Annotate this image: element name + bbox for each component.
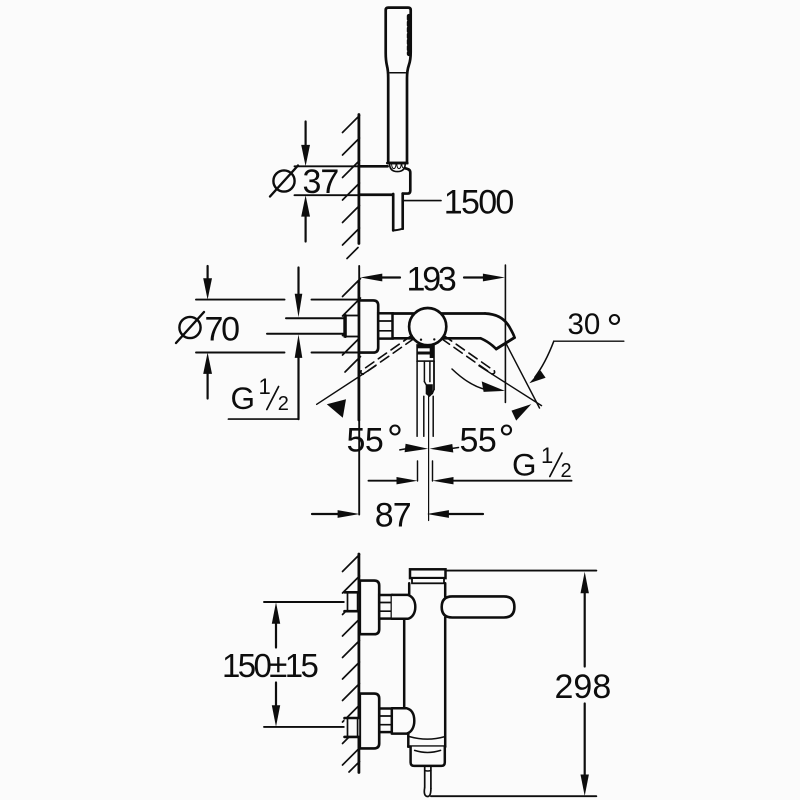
dim 150±15 arrows — [272, 602, 280, 624]
wall hatching (bottom view) — [343, 555, 360, 773]
dim Ø37 bottom arrow — [305, 214, 307, 242]
body lower section — [407, 734, 410, 747]
dashed lever position right (55°) — [441, 335, 494, 374]
svg-text:1: 1 — [259, 374, 271, 399]
lever collar — [417, 345, 434, 361]
dim Ø37 top arrow — [305, 122, 307, 148]
body top section — [408, 583, 411, 595]
centre line — [428, 396, 430, 520]
wall hatching (top view) — [343, 116, 360, 259]
G1/2 outlet arrows — [417, 461, 419, 481]
hand shower seam line — [390, 72, 406, 74]
svg-text:55: 55 — [460, 422, 497, 460]
svg-text:87: 87 — [375, 497, 411, 535]
dim 87 — [312, 513, 340, 515]
shower hose — [393, 194, 403, 231]
shower head face line — [387, 162, 407, 165]
lever shaft — [416, 361, 418, 436]
bottom escutcheon — [360, 694, 379, 749]
wall line (middle view) — [357, 281, 360, 420]
supply pipe — [286, 317, 345, 319]
lever tip — [426, 385, 432, 397]
svg-text:°: ° — [387, 418, 403, 462]
wall bracket — [360, 165, 388, 168]
top union dome — [392, 595, 416, 619]
shower nozzle dome — [390, 164, 406, 171]
dashed lever position left (55°) — [361, 335, 414, 374]
label Ø37 — [273, 170, 294, 191]
svg-text:150±15: 150±15 — [222, 647, 318, 684]
svg-text:2: 2 — [561, 460, 572, 482]
knob dots — [420, 339, 422, 341]
svg-text:55: 55 — [347, 422, 384, 460]
55° arc arrow left — [327, 399, 346, 418]
30° construction line — [506, 344, 539, 408]
dim Ø70 extension lines — [196, 299, 285, 301]
wall line (bottom view) — [357, 554, 360, 773]
svg-text:1500: 1500 — [444, 184, 514, 222]
55° radial line right — [479, 366, 542, 406]
top escutcheon — [360, 581, 379, 635]
svg-text:°: ° — [607, 307, 623, 351]
cartridge cap — [410, 569, 446, 578]
wall extension line (193 / 87) — [358, 266, 360, 281]
wall hatching (middle view) — [343, 279, 361, 373]
escutcheon (middle view) — [359, 300, 378, 352]
dim 298 extension lines — [446, 570, 597, 572]
outlet stub lines — [423, 396, 425, 436]
spout — [481, 314, 515, 350]
svg-text:298: 298 — [555, 668, 612, 706]
30° vertex arrow — [512, 404, 532, 421]
cap ring — [412, 578, 444, 583]
svg-text:30: 30 — [568, 308, 601, 341]
outlet nipple — [424, 766, 426, 788]
hand shower spray strip (dashed) — [407, 16, 411, 54]
dim 298 arrows — [581, 572, 589, 594]
extension line right (193) — [504, 265, 506, 402]
knob circle — [409, 308, 446, 345]
pipe wall nut — [344, 316, 359, 337]
label Ø70 — [179, 317, 200, 338]
55° swing arrow right — [452, 369, 486, 390]
wall line (top view) — [357, 115, 360, 244]
G1/2 inlet arrows — [297, 268, 299, 296]
bottom hex nut — [379, 709, 392, 733]
55° radial line left — [317, 366, 376, 404]
bottom union dome — [392, 708, 415, 733]
svg-text:1: 1 — [541, 443, 553, 468]
body joint arc — [410, 737, 445, 740]
body bottom line — [408, 745, 445, 748]
top hex nut — [379, 595, 392, 619]
svg-text:G: G — [512, 447, 536, 483]
hand shower body — [386, 8, 411, 163]
body middle section — [403, 619, 406, 709]
30° leader — [554, 340, 624, 342]
svg-text:G: G — [231, 380, 255, 416]
lever (side view) — [442, 596, 515, 617]
dim Ø37 extension lines — [295, 165, 388, 167]
svg-text:37: 37 — [303, 163, 339, 201]
svg-text:2: 2 — [278, 393, 289, 415]
svg-text:193: 193 — [407, 261, 456, 299]
svg-text:70: 70 — [205, 311, 240, 349]
faucet body (middle view) — [393, 312, 415, 315]
55° angle vertex arrows — [405, 444, 429, 453]
leader line 1500 — [404, 200, 441, 202]
spout end face — [496, 338, 514, 349]
lower cylinder — [411, 747, 445, 766]
bottom union wall nut — [345, 718, 360, 737]
dim 150±15 extension lines — [264, 601, 344, 603]
hex nut (middle view) — [378, 313, 392, 338]
dim 193 line and arrows — [380, 276, 400, 278]
top union wall nut — [345, 592, 360, 611]
lower cylinder arc — [415, 750, 441, 752]
dim Ø70 arrows — [207, 266, 209, 280]
